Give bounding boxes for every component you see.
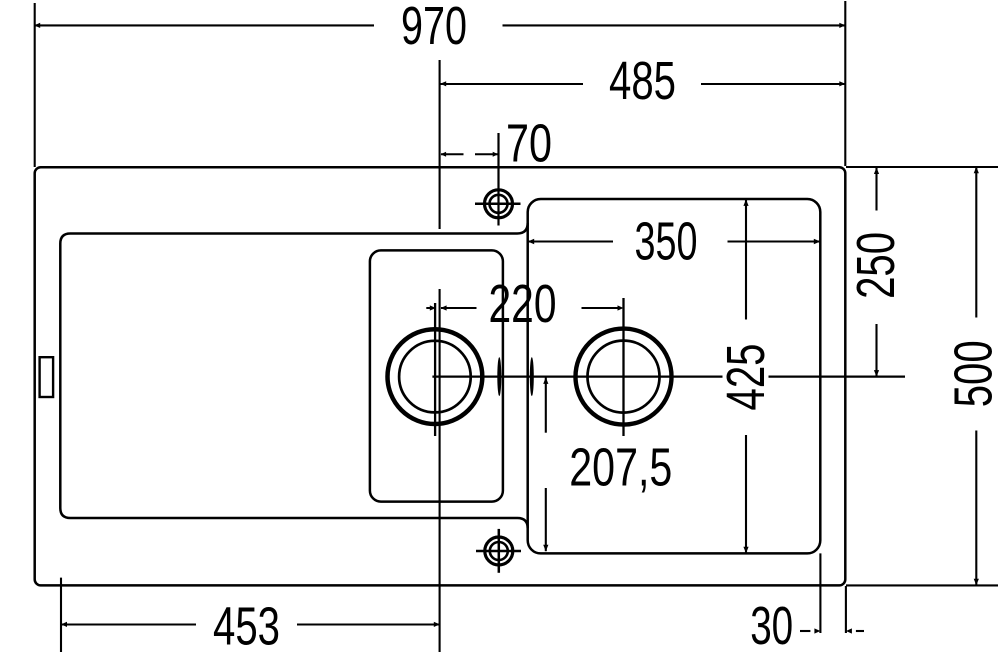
- svg-text:220: 220: [489, 274, 557, 334]
- horizontal centerline through drains: [432, 375, 722, 377]
- dimension 30: [750, 596, 864, 652]
- svg-text:30: 30: [750, 596, 793, 652]
- top mounting hole: [485, 190, 513, 218]
- bottom hole horizontal centerline: [476, 550, 521, 553]
- right drain vertical centerline: [622, 298, 624, 436]
- extension line for 453 left: [60, 578, 62, 652]
- extension line left (970): [34, 3, 36, 167]
- top edge extension to right: [846, 166, 998, 168]
- sink outer outline: [35, 167, 846, 585]
- line jump mark right: [530, 357, 534, 396]
- dimension 500 (vertical): [943, 167, 1000, 586]
- svg-text:970: 970: [401, 0, 467, 56]
- dimension 207,5 (vertical line, horizontal text): [543, 377, 672, 551]
- dimension 970: [34, 0, 845, 56]
- bottom hole vertical centerline: [498, 529, 501, 573]
- sink vertical centerline bottom segment: [439, 289, 441, 652]
- left drain vertical centerline: [434, 303, 436, 436]
- svg-text:500: 500: [943, 340, 1000, 407]
- dimension 350: [528, 212, 821, 272]
- bottom mounting hole: [485, 537, 513, 565]
- extension line bowl right edge (30): [819, 553, 821, 633]
- top hole vertical centerline / 70 extension: [497, 133, 499, 226]
- bottom edge extension to right: [846, 584, 998, 586]
- dimension 220: [426, 274, 623, 334]
- svg-text:250: 250: [846, 232, 906, 299]
- drainboard outline: [60, 223, 527, 528]
- left drain outer circle: [388, 329, 483, 424]
- right drain outer circle: [576, 329, 672, 425]
- dimension 250 (vertical): [846, 168, 906, 377]
- svg-text:425: 425: [716, 344, 776, 411]
- dimension 425 (vertical): [716, 199, 776, 553]
- line jump mark left: [497, 357, 501, 396]
- svg-text:350: 350: [635, 212, 698, 272]
- svg-text:485: 485: [609, 51, 676, 111]
- dimension 453: [61, 597, 440, 652]
- sink vertical centerline top segment: [439, 60, 441, 229]
- extension line sink right edge bottom: [845, 586, 847, 633]
- overflow slot: [40, 357, 54, 397]
- svg-text:70: 70: [506, 114, 552, 174]
- right drain inner circle: [588, 341, 660, 413]
- main bowl outline: [528, 199, 821, 553]
- half bowl outline: [370, 250, 503, 501]
- extension line right (970/485): [844, 1, 846, 166]
- svg-text:453: 453: [213, 597, 280, 652]
- svg-text:207,5: 207,5: [569, 437, 672, 497]
- dimension 485: [440, 51, 845, 111]
- top hole horizontal centerline: [475, 203, 521, 206]
- dimension 70: [441, 114, 552, 174]
- left drain inner circle: [399, 341, 471, 413]
